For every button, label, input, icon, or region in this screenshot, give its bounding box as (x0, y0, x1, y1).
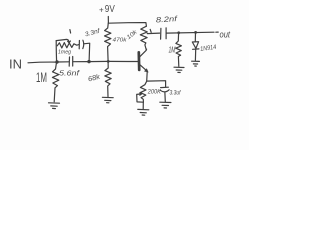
svg-text:out: out (220, 29, 231, 40)
svg-text:1M: 1M (36, 69, 47, 85)
svg-text:470k: 470k (113, 38, 128, 44)
wire node C to base (108, 60, 138, 62)
emitter lead wire (146, 72, 149, 81)
node C (107, 60, 110, 63)
resistor R3 470k (105, 23, 111, 61)
svg-text:3.3nf: 3.3nf (84, 27, 101, 38)
ground for pot (138, 109, 149, 115)
+9V rail wire (108, 23, 146, 27)
label out (220, 29, 231, 40)
emitter junction wire to cap (147, 81, 166, 87)
label IN (9, 57, 22, 72)
output wire (167, 31, 214, 34)
svg-text:200K: 200K (147, 89, 162, 96)
transistor Q1 base bar (137, 52, 140, 70)
node B (87, 60, 90, 63)
resistor R7 1M (176, 33, 182, 66)
svg-text:1N914: 1N914 (200, 44, 217, 53)
resistor R5 68k (105, 62, 111, 97)
wire input to node A (28, 61, 57, 64)
pot R6 wiper loop with arrow (137, 94, 144, 102)
wire collector to C4 (147, 32, 159, 35)
tick above arrow (69, 30, 72, 33)
wire node A to C1 (57, 61, 69, 63)
svg-text:5.6nf: 5.6nf (59, 69, 80, 78)
resistor R4 10k (collector) (140, 26, 147, 49)
svg-text:1meg: 1meg (58, 49, 72, 55)
supply stub wire (107, 17, 109, 23)
svg-text:9V: 9V (105, 3, 115, 15)
svg-text:8.2nf: 8.2nf (156, 14, 179, 25)
capacitor C3 3.3uF (161, 86, 169, 88)
svg-text:+: + (99, 5, 104, 14)
node D (177, 31, 180, 34)
feedback riser wire (55, 41, 57, 62)
ground for D1 (192, 61, 200, 66)
pot R6 200K zigzag (140, 82, 146, 102)
ground for R5 (102, 97, 113, 103)
wire node B to node C (89, 60, 108, 62)
capacitor C1 5.6nF plates (69, 57, 73, 67)
tick above collector wire (150, 29, 151, 32)
capacitor C4 8.2nF plates (161, 28, 167, 39)
svg-text:1M: 1M (169, 46, 176, 55)
ground for R1 (49, 103, 60, 109)
svg-text:68k: 68k (87, 74, 101, 84)
svg-text:3.3uf: 3.3uf (170, 90, 182, 96)
svg-text:10k: 10k (126, 29, 139, 41)
wire C2 down to node B (84, 43, 90, 61)
resistor R2 (trim) horizontal (57, 43, 79, 48)
node E (194, 31, 197, 34)
capacitor C2 3.3nF (78, 41, 80, 49)
trimmer arrow (56, 39, 69, 42)
resistor R1 1M (52, 63, 58, 102)
label +9V (99, 3, 115, 15)
transistor Q1 emitter with arrow (140, 65, 148, 72)
ground for C3 (160, 102, 171, 108)
transistor Q1 collector (140, 49, 147, 57)
ground for R7 (174, 67, 184, 72)
wire C1 to node B (73, 61, 89, 63)
pot lead to ground (142, 102, 144, 109)
node A (55, 60, 58, 63)
diode D1 1N914 (194, 33, 196, 42)
svg-text:IN: IN (9, 57, 22, 72)
